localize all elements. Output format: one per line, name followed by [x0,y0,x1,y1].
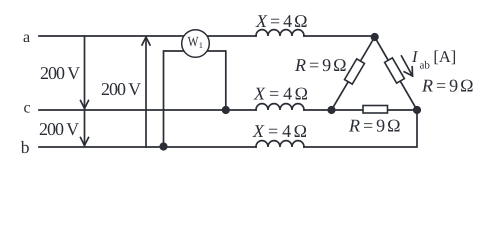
svg-text:b: b [21,137,30,157]
voltage arrow 200V b-a (up) [142,37,150,147]
inductor X=4Ω phase c [256,104,304,110]
node a (delta apex junction) [371,33,379,41]
node c (delta left junction) [327,106,335,114]
svg-text:a: a [23,29,30,46]
delta right branch wire (node a to node b) [375,37,417,110]
voltage arrow 200V a-c [81,36,89,109]
wattmeter W1 [182,30,210,58]
wattmeter voltage-coil loop wire [164,51,226,147]
resistor R=9Ω bottom branch [363,106,388,114]
junction dot wattmeter loop on wire c [222,106,230,114]
svg-text:200 V: 200 V [101,79,141,99]
svg-text:W: W [188,35,199,50]
wire b [39,110,417,147]
junction dot wattmeter loop on wire b [159,142,167,150]
current arrow I_ab [402,56,413,76]
delta left branch wire (node a to node c) [332,37,375,110]
node b (delta right junction) [413,106,421,114]
inductor X=4Ω phase a [256,30,304,36]
svg-text:200 V: 200 V [39,119,79,139]
wire c [39,109,417,111]
resistor R=9Ω right branch [385,58,405,83]
wire a [39,35,375,37]
svg-text:c: c [24,100,31,117]
svg-text:1: 1 [199,40,203,50]
resistor R=9Ω left branch [345,59,365,84]
inductor X=4Ω phase b [256,141,304,147]
voltage arrow 200V c-b [81,110,89,146]
svg-text:200 V: 200 V [40,63,80,83]
